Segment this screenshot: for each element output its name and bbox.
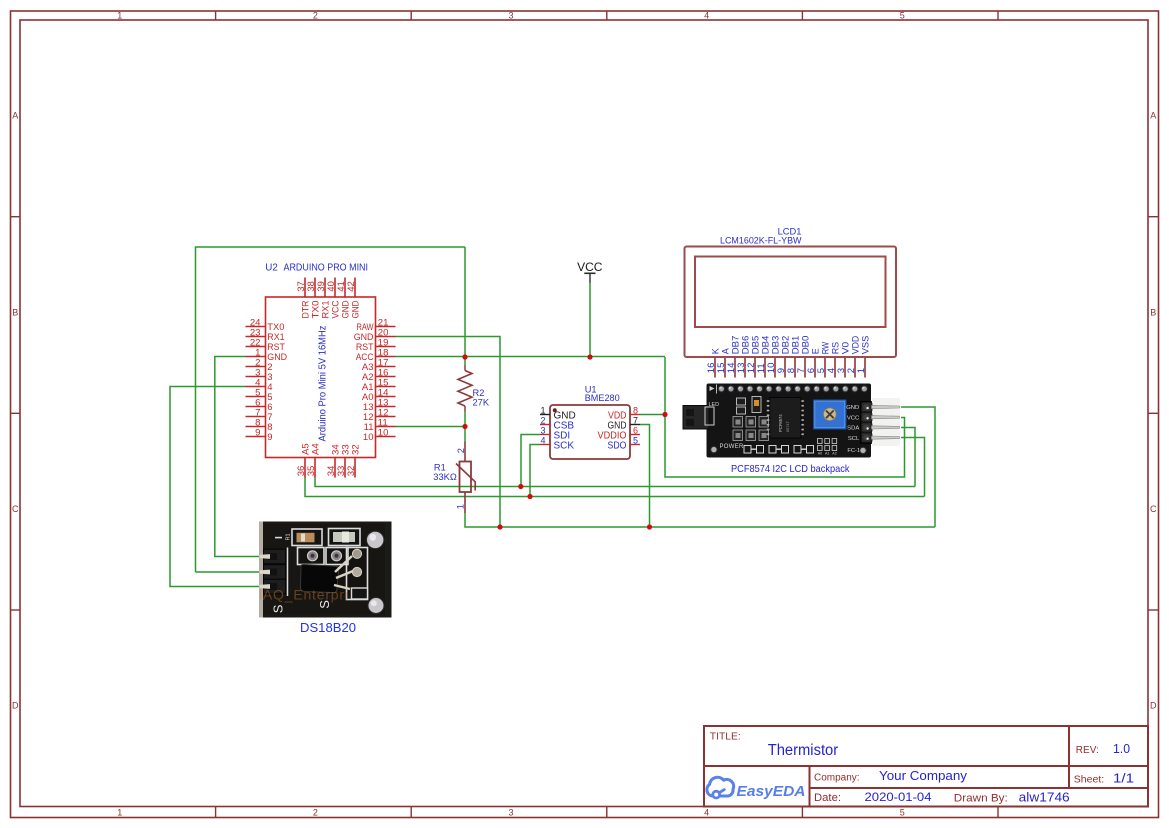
svg-text:E: E [810,348,820,354]
power symbol VCC [577,260,603,283]
U2 pin 33 (33) [336,444,351,477]
U2 pin 22 (RST) [246,338,286,354]
resistor R2 27K [458,365,490,412]
svg-text:VDD: VDD [850,335,860,354]
svg-text:DB0: DB0 [800,336,810,355]
svg-text:A: A [1150,111,1156,121]
svg-text:9: 9 [255,428,260,439]
svg-text:35: 35 [306,466,317,477]
U2 pin 20 (GND) [354,328,396,344]
U2 pin 38 (TX0) [306,278,321,319]
U1 pin 7 (GND) [608,416,641,432]
svg-text:TITLE:: TITLE: [710,732,741,743]
svg-text:R2: R2 [473,388,485,398]
svg-text:PCF8574: PCF8574 [778,414,783,432]
svg-text:lAQ_Enterpri: lAQ_Enterpri [259,587,349,603]
U2 pin 39 (RX1) [316,278,331,319]
svg-text:C: C [12,504,19,514]
LCD1 pin 10 (DB3) [766,336,780,378]
wire Arduino pin20 GND down to ground rail [396,337,501,528]
U2 pin 17 (A3) [362,358,396,374]
svg-text:DS18B20: DS18B20 [300,621,356,635]
U2 pin 9 (9) [246,428,273,444]
svg-text:8574T: 8574T [786,421,790,432]
LCD display LCD1 LCM1602K-FL-YBW [685,226,897,357]
svg-text:D: D [1150,701,1157,711]
svg-text:7: 7 [633,416,638,426]
LCD1 pin 5 (RW) [816,341,830,377]
svg-text:R1: R1 [286,533,292,540]
module DS18B20 sensor board [259,522,392,618]
svg-text:3: 3 [540,426,545,436]
svg-text:BME280: BME280 [585,393,620,403]
svg-text:REV:: REV: [1076,745,1099,756]
svg-text:2: 2 [313,10,318,20]
LCD1 pin 4 (RS) [826,342,840,378]
svg-text:GND: GND [350,300,361,318]
svg-text:alw1746: alw1746 [1019,790,1070,805]
svg-text:VSS: VSS [860,336,870,355]
wire VCC-net vertical into R2/ACC junction [464,247,466,357]
wire VCC-net top loop (DS18B20 pin2 to R2 top) [196,247,466,572]
svg-text:3: 3 [508,10,513,20]
svg-text:4: 4 [704,10,709,20]
svg-text:5: 5 [900,10,905,20]
LCD1 pin 16 (K) [706,348,720,377]
svg-text:DB3: DB3 [770,336,780,355]
wire BME280 SDI to SDA rail [521,435,540,487]
LCD1 pin 2 (VDD) [846,335,860,377]
svg-text:32: 32 [346,466,357,477]
svg-text:S: S [317,600,332,609]
svg-text:PCF8574 I2C LCD backpack: PCF8574 I2C LCD backpack [731,463,850,475]
wire BME280 GND pin7 to ground rail [640,425,650,528]
U2 pin 3 (3) [246,368,273,384]
U2 pin 40 (VCC) [326,278,341,319]
U2 pin 23 (RX1) [246,328,285,344]
U1 pin 4 (SCK) [540,436,574,452]
U1 pin 1 (GND) [540,406,576,422]
svg-text:Thermistor: Thermistor [768,742,839,759]
svg-text:2: 2 [540,416,545,426]
wire Arduino pin11 to R divider node [396,426,466,428]
svg-text:Date:: Date: [814,792,841,804]
svg-text:EasyEDA: EasyEDA [737,783,806,800]
wire Arduino pin18 ACC to VCC rail [396,356,666,358]
U2 pin 6 (6) [246,398,273,414]
svg-text:Company:: Company: [814,773,860,784]
svg-text:27K: 27K [473,397,490,407]
U2 pin 16 (A2) [362,368,396,384]
svg-text:Your Company: Your Company [879,769,968,783]
svg-text:V0: V0 [840,342,850,354]
U2 pin 13 (13) [363,398,396,414]
svg-text:A2: A2 [832,452,836,456]
svg-text:1: 1 [856,368,867,373]
U1 pin 5 (SDO) [608,436,641,452]
svg-text:Drawn By:: Drawn By: [954,793,1008,805]
svg-text:Arduino Pro Mini 5V 16MHz: Arduino Pro Mini 5V 16MHz [317,326,328,442]
svg-text:DB5: DB5 [750,336,760,355]
wire R2 bottom to node [464,412,466,442]
svg-text:B: B [1150,307,1156,317]
svg-text:10: 10 [378,428,389,439]
wire BME280 SCK to SCL rail [530,445,540,497]
svg-text:POWER: POWER [720,444,745,450]
svg-text:9: 9 [267,432,272,443]
svg-text:RW: RW [820,341,830,354]
svg-text:ARDUINO PRO MINI: ARDUINO PRO MINI [284,263,369,274]
svg-text:DB2: DB2 [780,336,790,355]
junction SCL net at BME280 SCK [527,494,532,499]
svg-text:4: 4 [540,436,545,446]
title block [704,726,1148,807]
LCD1 pin 15 (A) [716,348,730,377]
svg-text:6: 6 [633,426,638,436]
LCD1 pin 9 (DB2) [776,336,790,378]
LCD1 pin 12 (DB5) [746,336,760,378]
svg-text:A: A [12,111,18,121]
wire R2 top connection [464,357,466,365]
svg-text:Sheet:: Sheet: [1074,774,1104,786]
svg-text:3: 3 [508,808,513,818]
junction SDA net at BME280 SDI [518,484,523,489]
wire backpack SDA drop [901,428,915,487]
svg-text:42: 42 [346,281,357,292]
wire SCL rail (A5 to backpack SCL) [305,478,925,497]
junction GND net at BME280 pin7 drop [647,524,652,529]
svg-text:SCL: SCL [848,436,860,442]
svg-text:VCC: VCC [577,260,603,274]
U2 pin 41 (GND) [336,278,351,319]
svg-text:GND: GND [846,405,859,411]
LCD1 pin 7 (DB0) [796,336,810,378]
module PCF8574 I2C LCD backpack [683,384,900,458]
svg-text:2020-01-04: 2020-01-04 [865,790,932,804]
svg-text:DB4: DB4 [760,336,770,355]
svg-text:VCC: VCC [847,415,860,421]
wire backpack SCL drop [901,438,925,497]
U2 pin 1 (GND) [246,348,288,364]
svg-text:DB6: DB6 [740,336,750,355]
LCD1 pin 8 (DB1) [786,336,800,378]
svg-text:D: D [12,701,19,711]
U2 pin 14 (A0) [362,388,396,404]
svg-text:1/1: 1/1 [1113,772,1134,786]
wire VCC column down to backpack VCC [665,357,905,477]
svg-text:U2: U2 [265,263,278,274]
wire Arduino pin1 GND to DS18B20 pin1 [215,357,262,557]
IC U2 ARDUINO PRO MINI [265,263,375,458]
svg-text:1: 1 [540,406,545,416]
wire Arduino pin4 to DS18B20 pin3 [170,387,262,587]
wire SDA rail (A4 to backpack SDA) [315,478,915,487]
junction VCC net at BME280 VDD [662,412,667,417]
svg-text:32: 32 [350,444,361,455]
svg-text:A4: A4 [310,443,321,455]
svg-text:4: 4 [704,808,709,818]
svg-text:S: S [271,604,286,613]
wire VCC symbol stem [589,282,591,357]
svg-text:8: 8 [633,406,638,416]
svg-text:10: 10 [363,432,374,443]
IC U1 BME280 [550,385,630,460]
thermistor R1 33K [433,442,475,514]
U2 pin 21 (RAW) [357,318,396,334]
U2 pin 10 (10) [363,428,396,444]
U2 pin 4 (4) [246,378,273,394]
U1 pin 8 (VDD) [608,406,640,422]
U2 pin 37 (DTR) [296,278,311,319]
U2 pin 15 (A1) [362,378,396,394]
LCD1 pin 14 (DB7) [726,336,740,378]
svg-text:LCM1602K-FL-YBW: LCM1602K-FL-YBW [720,236,802,246]
LCD1 pin 3 (V0) [836,342,850,378]
svg-text:K: K [710,348,720,354]
wire BME280 VDD to VCC column [640,414,665,416]
EasyEDA logo [707,777,806,800]
svg-text:DB7: DB7 [730,336,740,355]
LCD1 pin 1 (VSS) [856,336,870,378]
svg-text:A: A [720,348,730,354]
U2 pin 35 (A4) [306,443,321,478]
svg-text:RS: RS [830,342,840,354]
svg-text:33KΩ: 33KΩ [433,472,457,482]
svg-text:1: 1 [117,808,122,818]
svg-text:SCK: SCK [554,441,575,452]
junction GND net at pin20 drop [497,524,502,529]
U1 pin 3 (SDI) [540,426,570,442]
U2 pin 18 (ACC) [356,348,396,364]
svg-text:1: 1 [117,10,122,20]
LCD1 pin 13 (DB6) [736,336,750,378]
U2 pin 24 (TX0) [246,318,285,334]
LCD1 pin 11 (DB4) [756,336,770,378]
wire backpack GND to ground rail [901,407,935,527]
U2 pin 34 (34) [326,444,341,478]
svg-text:A0: A0 [818,452,822,456]
svg-text:1.0: 1.0 [1113,742,1130,756]
svg-text:SDA: SDA [847,426,859,432]
svg-text:5: 5 [633,436,638,446]
U2 pin 32 (32) [346,444,361,477]
svg-text:1: 1 [456,504,466,509]
wire R1 bottom to ground rail [465,513,935,527]
U2 pin 5 (5) [246,388,273,404]
junction VCC net at R2 top [462,354,467,359]
U1 pin 2 (CSB) [540,416,574,432]
svg-text:5: 5 [900,808,905,818]
LCD1 pin 6 (E) [806,348,820,377]
junction divider node R2/R1/pin11 [462,424,467,429]
wire DS18B20 pin2 stub [196,571,263,573]
U2 pin 42 (GND) [346,278,361,319]
svg-text:DB1: DB1 [790,336,800,355]
svg-text:2: 2 [313,808,318,818]
U2 pin 12 (12) [363,408,396,424]
U2 pin 11 (11) [364,418,396,434]
U2 pin 2 (2) [246,358,273,374]
U2 pin 19 (RST) [356,338,396,354]
U2 pin 7 (7) [246,408,273,424]
svg-text:B: B [12,307,18,317]
svg-text:A1: A1 [825,452,829,456]
U2 pin 8 (8) [246,418,273,434]
junction VCC net at VCC symbol [587,354,592,359]
svg-text:R1: R1 [434,462,446,472]
U2 pin 36 (A5) [296,443,311,477]
svg-text:2: 2 [456,448,466,453]
svg-text:SDO: SDO [608,441,627,452]
svg-text:C: C [1150,504,1157,514]
U1 pin 6 (VDDIO) [598,426,641,442]
